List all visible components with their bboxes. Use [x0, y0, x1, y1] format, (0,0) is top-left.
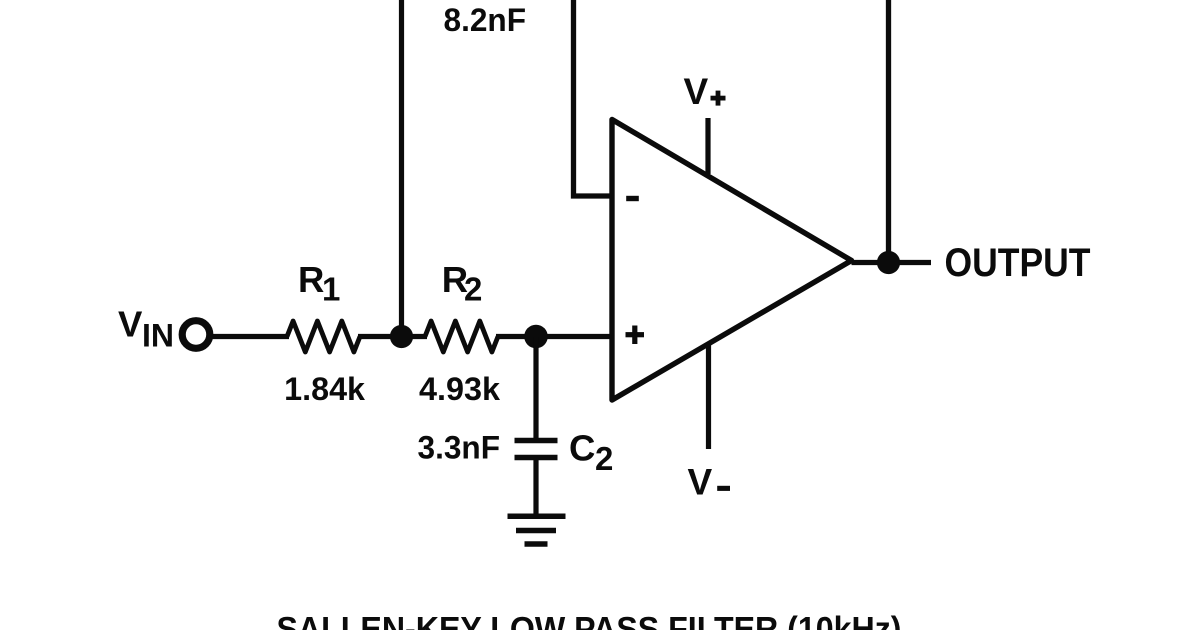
node B junction: [524, 325, 548, 349]
wire op-amp output: [852, 260, 932, 265]
svg-text:2: 2: [595, 440, 613, 477]
svg-text:V: V: [684, 71, 709, 112]
svg-text:8.2nF: 8.2nF: [444, 2, 527, 38]
svg-text:2: 2: [464, 270, 482, 307]
svg-text:4.93k: 4.93k: [419, 371, 500, 407]
wire R2 to node B to op-amp +input: [496, 334, 612, 339]
wire output riser: [886, 0, 891, 263]
op-amp U1 triangle: [612, 120, 852, 401]
svg-text:OUTPUT: OUTPUT: [945, 241, 1091, 285]
capacitor C2: [515, 438, 558, 444]
svg-text:1.84k: 1.84k: [284, 371, 365, 407]
op-amp V+ supply stub: [705, 118, 710, 174]
svg-text:IN: IN: [142, 318, 174, 354]
svg-text:V: V: [118, 304, 143, 345]
svg-text:V: V: [688, 462, 713, 503]
svg-text:C: C: [569, 428, 595, 469]
wire inverting input riser: [574, 0, 613, 196]
ground: [508, 513, 566, 519]
wire R1 to node A to R2: [358, 334, 427, 339]
svg-text:R: R: [298, 259, 324, 300]
wire input to R1: [213, 334, 290, 339]
wire node A riser to C1 (off top): [399, 0, 404, 337]
resistor R2: [425, 321, 498, 352]
node A junction: [390, 325, 413, 348]
node output junction: [877, 251, 900, 274]
terminal VIN circle: [182, 321, 210, 349]
wire node B down to C2: [533, 337, 538, 441]
svg-text:SALLEN-KEY LOW PASS FILTER (10: SALLEN-KEY LOW PASS FILTER (10kHz): [277, 611, 902, 630]
op-amp V- supply stub: [706, 345, 711, 450]
wire C2 to ground: [533, 458, 538, 515]
op-amp plus input sign: [626, 332, 645, 337]
op-amp minus input sign: [626, 196, 639, 201]
svg-text:3.3nF: 3.3nF: [418, 429, 501, 465]
svg-text:1: 1: [322, 270, 340, 307]
resistor R1: [287, 321, 360, 352]
